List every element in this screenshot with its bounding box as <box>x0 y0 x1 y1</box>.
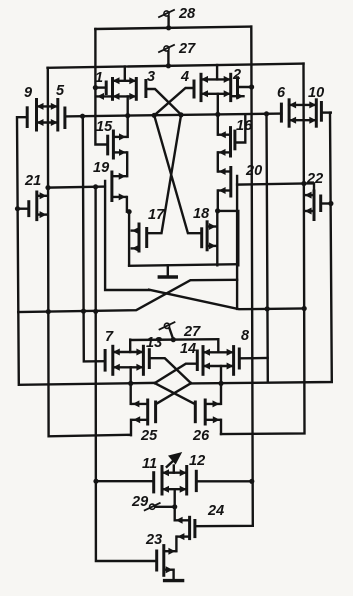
label 12 <box>189 453 205 469</box>
transistor Q14 gate bar <box>196 351 199 370</box>
svg-text:17: 17 <box>148 207 165 223</box>
transistor Q18 drain lead <box>207 223 216 230</box>
wire Q20 source corner <box>217 191 219 211</box>
transistor Q24 gate bar <box>193 521 196 537</box>
node dot Lline/rail266 <box>265 306 270 311</box>
transistor Q21 gate lead <box>18 207 29 209</box>
wire gate3 lead+diagonal to bus <box>146 89 182 115</box>
label 7 <box>105 329 114 345</box>
transistor Q12 gate bar <box>195 471 198 490</box>
transistor Q26 gate bar <box>194 402 197 422</box>
transistor Q9 channel <box>35 100 38 131</box>
node dot rail96/gate11 <box>93 479 98 484</box>
wire 18 rail <box>216 211 218 265</box>
wire pair1112 source stub down <box>173 489 175 520</box>
node dot gate12/rail251 <box>249 479 254 484</box>
label 19 <box>93 160 109 176</box>
node: bus-27 junction dot <box>166 63 171 68</box>
svg-text:12: 12 <box>189 453 205 469</box>
label 10 <box>308 85 324 101</box>
wire 29 to rail <box>155 506 175 508</box>
transistor Q20 drain lead <box>219 168 231 175</box>
transistor Q24 channel <box>188 517 191 538</box>
wire pair713 source stub to 25 drain <box>129 367 131 404</box>
svg-text:8: 8 <box>241 328 250 344</box>
label 3 <box>147 69 155 85</box>
svg-text:28: 28 <box>178 6 196 22</box>
wire Q9-Q5 shared source <box>37 119 58 126</box>
wire Q11-Q12 shared drain <box>162 469 187 476</box>
node dot diag3/bus <box>178 112 183 117</box>
wire bus y115 <box>65 114 282 117</box>
transistor Q20 gate bar + extension down <box>236 176 238 309</box>
transistor Q20 channel <box>229 168 232 197</box>
node dot gate2/rail <box>249 84 254 89</box>
transistor Q8 gate bar <box>238 349 241 368</box>
wire 24 source to 23 drain <box>175 537 177 552</box>
node dot pair13/bus115 <box>125 113 130 118</box>
wire 21drain line to gate19 <box>48 187 105 188</box>
transistor Q1 source lead to left rail <box>97 93 113 100</box>
terminal 27 (lower) <box>160 322 175 339</box>
label 28 <box>178 6 196 22</box>
transistor Q19 channel <box>110 172 113 201</box>
transistor Q22 gate bar <box>319 196 322 211</box>
wire 20src branch right + down <box>217 211 238 265</box>
svg-text:21: 21 <box>24 173 41 189</box>
node dot H2/26drain <box>218 381 223 386</box>
transistor Q9 gate bar <box>26 108 29 127</box>
label 6 <box>277 85 286 101</box>
svg-text:20: 20 <box>245 163 262 179</box>
terminal 27 (upper) <box>159 45 174 66</box>
transistor Q23 drain lead <box>164 548 176 555</box>
node dot rail303/22line <box>301 181 306 186</box>
wire L-line (gate19 ext to rail303) <box>149 290 304 310</box>
transistor Q21 drain lead <box>37 192 47 199</box>
label 14 <box>180 341 196 357</box>
wire right vertex diagonal to gate25 <box>156 383 191 404</box>
transistor Q12 gate lead <box>196 480 251 482</box>
transistor Q26 channel <box>204 400 207 424</box>
wire Q11-Q12 shared source <box>162 486 187 493</box>
transistor Q26 drain lead <box>205 400 219 407</box>
transistor Q19 drain lead <box>112 173 126 180</box>
label 27 (lower) <box>183 324 201 340</box>
label 1 <box>95 70 103 86</box>
wire rail x266 (bus115 down to H2) <box>267 114 268 383</box>
transistor Q17 channel <box>138 224 141 251</box>
node dot rail47/21drain <box>45 185 50 190</box>
svg-text:1: 1 <box>95 70 103 86</box>
node dot bus115/rail266 <box>264 111 269 116</box>
transistor Q23 gate bar <box>155 551 158 570</box>
wire bus27low left riser <box>129 340 131 352</box>
transistor Q5 channel <box>56 100 59 131</box>
label 8 <box>241 328 250 344</box>
wire bus 27 <box>48 64 304 68</box>
wire 22drain line from gate20 <box>237 183 314 191</box>
svg-text:26: 26 <box>192 428 210 444</box>
transistor Q1 channel <box>111 79 114 100</box>
wire right rail x330 (gate10 down to H2 line) <box>191 113 332 384</box>
transistor Q15 gate bar <box>106 136 109 154</box>
wire Q14-Q8 shared source <box>203 363 234 370</box>
label 2 <box>232 67 241 83</box>
wire Q14-Q8 shared drain <box>203 349 234 356</box>
transistor Q25 channel <box>146 400 149 424</box>
node dot gate1/rail <box>93 85 98 90</box>
svg-text:29: 29 <box>131 494 148 510</box>
terminal 29 <box>145 503 160 510</box>
transistor Q3 channel <box>135 79 138 100</box>
node dot pair42/bus115 <box>215 112 220 117</box>
transistor Q2 channel <box>229 74 232 100</box>
wire Q6-Q10 shared drain <box>289 101 316 108</box>
transistor Q16 source lead <box>219 149 231 156</box>
svg-text:7: 7 <box>105 329 114 345</box>
label 23 <box>145 532 162 548</box>
node dot rail96/Rline <box>93 309 98 314</box>
svg-text:24: 24 <box>207 503 224 519</box>
label 16 <box>236 118 253 134</box>
wire bus27low right riser <box>217 340 219 353</box>
wire rail x303 (bus27 right corner down, to 26-source line) <box>221 64 305 435</box>
node dot t27b/bus <box>171 337 176 342</box>
transistor Q16 drain lead <box>219 131 231 138</box>
transistor Q2 gate lead <box>238 86 252 88</box>
wire Q19 source corner <box>127 197 129 212</box>
transistor Q25 gate bar <box>154 402 157 422</box>
svg-text:3: 3 <box>147 69 155 85</box>
wire pair13 drain stub to bus27 <box>124 67 126 81</box>
transistor Q10 channel <box>315 100 318 126</box>
transistor Q11 gate bar <box>152 473 155 492</box>
svg-text:15: 15 <box>96 119 113 135</box>
transistor Q21 source lead <box>37 211 47 218</box>
wire inner box bottom <box>129 264 238 266</box>
transistor Q13 gate bar <box>148 350 151 368</box>
node dot diag4/bus <box>152 113 157 118</box>
transistor Q3 gate bar <box>144 81 147 97</box>
transistor Q1 gate bar <box>105 82 108 94</box>
wire rail x47 (bus27 left corner down, to 25-source line) <box>48 68 131 437</box>
node dot 19src/17drain <box>127 209 132 214</box>
transistor Q17 source lead <box>132 245 139 252</box>
transistor Q21 gate bar <box>27 202 30 216</box>
transistor Q25 drain lead <box>132 400 147 407</box>
wire Q7-Q13 shared drain <box>113 349 144 356</box>
wire R-line (gate20 ext to rail17) <box>18 280 237 312</box>
label 4 <box>180 69 189 85</box>
transistor Q26 source lead <box>205 416 220 423</box>
transistor Q10 gate bar <box>320 103 323 121</box>
transistor Q1 gate lead <box>95 86 106 88</box>
wire 25 source down-left <box>130 420 132 435</box>
wire gate13 lead + diagonal to right vertex <box>149 358 191 383</box>
ground (upper) <box>159 265 176 277</box>
transistor Q23 channel <box>162 546 165 576</box>
wire left rail x17 (gate9 down to H-left line) <box>17 117 155 385</box>
node dot Rline/rail83 <box>81 309 86 314</box>
transistor Q6 gate bar <box>280 104 283 121</box>
svg-text:14: 14 <box>180 341 196 357</box>
label 13 <box>146 335 162 351</box>
wire Q4-Q2 shared drain <box>201 76 231 83</box>
transistor Q7 channel <box>111 346 114 374</box>
wire bus 27 lower <box>130 338 218 341</box>
transistor Q2 source lead to right <box>231 93 244 100</box>
wire Q1-Q3 shared source <box>113 93 137 100</box>
node dot Lline/rail303 <box>302 306 307 311</box>
transistor Q14 channel <box>202 347 205 375</box>
label 22 <box>306 171 323 187</box>
label 27 (upper) <box>178 41 196 57</box>
label 17 <box>148 207 165 223</box>
transistor Q16 channel <box>229 128 232 156</box>
wire gate4 lead+diagonal to bus <box>154 88 194 115</box>
wire rail x95 (bus28 left edge down to gate15) <box>95 29 107 145</box>
wire 17 rail (dot to box bottom) <box>128 212 130 266</box>
svg-text:5: 5 <box>56 83 65 99</box>
transistor Q23 source lead <box>164 566 173 573</box>
transistor Q22 gate lead <box>321 202 331 204</box>
transistor Q17 drain lead <box>132 227 139 234</box>
label 20 <box>245 163 262 179</box>
transistor Q21 channel <box>35 192 38 220</box>
transistor Q17 gate bar <box>145 229 148 247</box>
transistor Q15 channel <box>112 131 115 158</box>
wire rail x83 (bus115 to gate7) <box>83 116 105 361</box>
transistor Q18 source lead <box>207 242 216 249</box>
terminal 28 <box>159 10 174 28</box>
label 9 <box>24 85 32 101</box>
node dot gate22/rail330 <box>328 201 333 206</box>
wire Q9-Q5 shared drain <box>37 103 58 110</box>
svg-text:19: 19 <box>93 160 109 176</box>
label 25 <box>140 428 158 444</box>
node dot 29/rail <box>172 504 177 509</box>
transistor Q7 gate bar <box>104 351 107 371</box>
wire Q7-Q13 shared source <box>113 364 144 371</box>
wire Q16 source to Q20 drain <box>217 152 219 171</box>
transistor Q22 source lead <box>305 208 314 215</box>
transistor Q25 source lead <box>133 416 148 423</box>
transistor Q16 gate bar <box>233 131 236 149</box>
transistor Q18 channel <box>206 222 209 250</box>
transistor Q15 drain lead <box>113 133 126 140</box>
label 18 <box>193 206 210 222</box>
transistor Q22 channel <box>313 191 316 220</box>
transistor Q5 gate bar <box>63 108 66 128</box>
node: bus-28 junction dot <box>166 25 171 30</box>
label 26 <box>192 428 210 444</box>
output arrow <box>167 452 182 473</box>
wire Q4-Q2 shared source <box>201 90 231 97</box>
transistor Q24 drain lead <box>176 517 190 524</box>
wire pair13 source stub down to bus115 <box>126 96 128 136</box>
node dot 20src/18drain <box>215 208 220 213</box>
transistor Q11 gate lead <box>96 480 154 482</box>
wire bus 28 <box>95 27 251 29</box>
transistor Q13 channel <box>142 346 145 374</box>
transistor Q16 gate lead <box>235 115 245 142</box>
label 15 <box>96 119 113 135</box>
transistor Q10 gate lead <box>321 111 330 113</box>
svg-text:18: 18 <box>193 206 210 222</box>
label 5 <box>56 83 65 99</box>
transistor Q11 channel <box>161 467 164 495</box>
svg-text:27: 27 <box>178 41 196 57</box>
transistor Q6 channel <box>288 100 291 126</box>
svg-text:25: 25 <box>140 428 158 444</box>
wire rail x251 (bus28 right edge down to gate24 line) <box>196 27 253 527</box>
wire gate8 lead <box>240 357 267 360</box>
transistor Q12 channel <box>185 467 188 495</box>
transistor Q19 gate bar + extension down <box>105 181 149 290</box>
wire pair148 source stub to 26 drain <box>220 366 222 404</box>
transistor Q18 gate bar <box>200 229 203 247</box>
transistor Q4 gate bar <box>193 81 196 97</box>
wire pair42 source stub down to bus115 <box>217 94 219 135</box>
transistor Q24 source lead <box>177 533 189 540</box>
svg-text:6: 6 <box>277 85 286 101</box>
svg-text:9: 9 <box>24 85 32 101</box>
wire pair42 drain stub to bus27 <box>216 65 218 79</box>
label 21 <box>24 173 41 189</box>
svg-text:11: 11 <box>142 456 157 472</box>
node dot gate21/rail17 <box>15 206 20 211</box>
svg-text:23: 23 <box>145 532 162 548</box>
label 24 <box>207 503 224 519</box>
wire 26 source down <box>220 420 222 434</box>
transistor Q22 drain lead <box>305 192 314 199</box>
wire Q6-Q10 shared source <box>289 117 316 124</box>
ground (lower) <box>165 570 183 581</box>
wire rail x96 (19gate-line down to gate23 lead) <box>96 187 157 561</box>
transistor Q2 gate bar <box>236 78 239 98</box>
transistor Q19 source lead <box>112 193 126 200</box>
svg-text:27: 27 <box>183 324 201 340</box>
wire left vertex diagonal to gate26 <box>155 383 195 404</box>
node dot Rline/rail47 <box>46 309 51 314</box>
transistor Q20 source lead <box>219 187 231 194</box>
wire gate14 lead + diagonal to left vertex <box>155 364 198 383</box>
transistor Q8 channel <box>232 347 235 375</box>
wire diagonal bus to gate18 <box>154 115 202 233</box>
label 29 <box>131 494 148 510</box>
svg-text:4: 4 <box>180 69 189 85</box>
transistor Q15 source lead <box>113 149 126 156</box>
label 11 <box>142 456 157 472</box>
transistor Q4 channel <box>200 74 203 100</box>
wire Q15 source to Q19 drain <box>126 152 128 176</box>
node dot rail96/19gate line <box>93 184 98 189</box>
node dot bus115/rail83 <box>80 114 85 119</box>
wire diagonal bus to gate17 <box>147 115 181 233</box>
node dot Hleft/25drain <box>128 381 133 386</box>
wire Q1-Q3 shared drain <box>113 77 137 84</box>
